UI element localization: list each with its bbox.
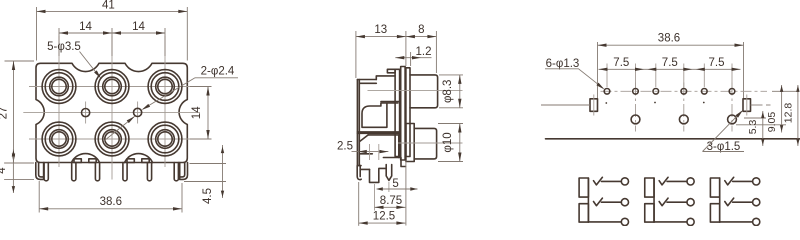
- svg-text:φ8.3: φ8.3: [442, 80, 454, 103]
- svg-text:14: 14: [79, 21, 92, 33]
- svg-text:φ10: φ10: [442, 132, 454, 152]
- svg-text:2.5: 2.5: [337, 140, 353, 152]
- svg-text:13: 13: [374, 24, 387, 36]
- svg-text:12.8: 12.8: [782, 103, 794, 124]
- svg-text:7.5: 7.5: [662, 57, 678, 69]
- svg-text:1.2: 1.2: [416, 46, 432, 58]
- svg-text:38.6: 38.6: [100, 196, 122, 208]
- svg-text:8: 8: [418, 24, 424, 36]
- svg-text:14: 14: [191, 106, 203, 119]
- svg-text:6-φ1.3: 6-φ1.3: [546, 58, 580, 70]
- svg-text:27: 27: [0, 107, 10, 120]
- svg-text:8.75: 8.75: [380, 195, 402, 207]
- svg-text:7.5: 7.5: [613, 57, 629, 69]
- svg-text:12.5: 12.5: [373, 211, 395, 223]
- svg-text:5-φ3.5: 5-φ3.5: [47, 41, 81, 53]
- svg-text:2-φ2.4: 2-φ2.4: [201, 66, 235, 78]
- svg-text:14: 14: [132, 21, 145, 33]
- svg-text:4.5: 4.5: [202, 188, 214, 204]
- svg-text:38.6: 38.6: [658, 33, 680, 45]
- svg-text:9.05: 9.05: [766, 112, 778, 133]
- svg-text:4: 4: [0, 167, 8, 174]
- svg-text:5: 5: [392, 178, 398, 190]
- svg-text:7.5: 7.5: [709, 57, 725, 69]
- svg-text:5.3: 5.3: [747, 120, 759, 135]
- svg-text:41: 41: [102, 0, 115, 12]
